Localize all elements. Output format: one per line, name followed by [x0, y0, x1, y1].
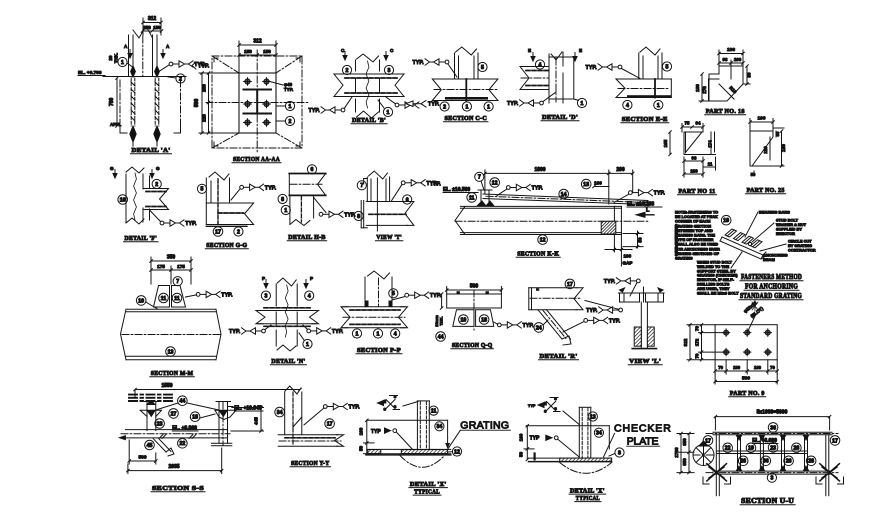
section U-U mid rail [717, 451, 807, 454]
svg-text:156: 156 [244, 49, 252, 54]
part 11 title [678, 188, 717, 195]
svg-text:75: 75 [685, 121, 690, 126]
svg-text:50: 50 [747, 72, 752, 77]
svg-text:CHECKER: CHECKER [614, 423, 672, 435]
section AA-AA title [232, 156, 281, 163]
svg-text:DETAIL 'N': DETAIL 'N' [271, 358, 305, 365]
svg-text:50: 50 [359, 446, 364, 452]
detail F callout 2 [152, 179, 161, 188]
detail X2 weld leader to post [563, 411, 579, 425]
section K-K main beam [455, 206, 648, 246]
svg-text:120: 120 [763, 146, 768, 154]
svg-text:50: 50 [518, 452, 523, 458]
detail R callout 17 [565, 279, 575, 289]
svg-text:TYP.: TYP. [507, 101, 519, 107]
section K-K callout 7 [475, 172, 484, 190]
svg-text:156: 156 [263, 49, 271, 54]
checker plate text [604, 423, 673, 458]
svg-text:50: 50 [751, 172, 756, 177]
svg-text:5: 5 [392, 291, 395, 297]
svg-text:312: 312 [683, 338, 688, 346]
svg-text:100: 100 [757, 116, 765, 122]
section S-S EL 9.900 [172, 426, 198, 432]
detail X2 callout 8 [609, 448, 624, 457]
detail HB top beam [289, 174, 325, 196]
view L column [641, 302, 647, 348]
svg-text:TYP.: TYP. [532, 186, 544, 192]
svg-text:TYP.: TYP. [609, 318, 621, 324]
section E-E beam [616, 79, 671, 98]
svg-text:200: 200 [616, 167, 625, 173]
part 18 dims top [718, 47, 745, 79]
detail A section markers AA [124, 44, 170, 58]
detail X1 weld symbols [378, 395, 400, 412]
section S-S callout 22 [178, 439, 188, 449]
svg-text:19: 19 [748, 446, 754, 452]
svg-text:7: 7 [360, 183, 363, 189]
section M-M typ leader [186, 291, 234, 298]
section K-K callout 14 [559, 189, 569, 199]
svg-text:17: 17 [567, 282, 573, 288]
view L title [628, 358, 662, 365]
svg-text:850: 850 [682, 458, 687, 466]
svg-text:4: 4 [626, 103, 629, 109]
svg-text:96: 96 [723, 57, 728, 62]
svg-text:100: 100 [359, 427, 364, 435]
section U-U posts [716, 435, 829, 471]
section AA-AA dim 500 [194, 72, 239, 135]
detail X1 grating strip [367, 449, 451, 455]
section K-K EL 10.500 [430, 182, 478, 194]
detail X1 weld leader to post [403, 402, 418, 407]
section K-K callout 12 [490, 178, 500, 188]
part 25 title [746, 187, 786, 194]
detail F beam right [143, 189, 169, 210]
detail B typ leader right [386, 97, 419, 108]
part 25 plate outline [750, 131, 773, 166]
section S-S callout 18 [190, 412, 215, 422]
svg-text:1: 1 [356, 331, 359, 337]
section K-K callout 13 [581, 179, 591, 189]
svg-text:SECTION Q-Q: SECTION Q-Q [452, 342, 493, 349]
section C-C column top [455, 47, 479, 79]
svg-text:1: 1 [581, 101, 584, 107]
svg-text:17: 17 [327, 421, 333, 427]
svg-text:175: 175 [177, 264, 185, 269]
part 11 dims top [681, 121, 705, 133]
detail HB callout 8 [278, 194, 287, 203]
svg-text:8: 8 [618, 450, 621, 456]
svg-text:TYP.: TYP. [332, 329, 344, 335]
section K-K left stub [477, 190, 494, 206]
svg-text:SECTION Y-Y: SECTION Y-Y [291, 460, 330, 467]
view T typ leader [392, 180, 439, 201]
svg-text:ERECTOR: ERECTOR [776, 231, 795, 236]
svg-text:20: 20 [108, 55, 113, 60]
svg-text:1: 1 [465, 104, 468, 110]
section U-U corner gusset left [707, 464, 727, 481]
detail R typ leader upper [585, 301, 622, 315]
section K-K title [516, 251, 560, 258]
grating note stud bolt [752, 218, 807, 243]
view T title [375, 234, 403, 241]
svg-text:TYP.: TYP. [413, 60, 425, 66]
svg-text:5: 5 [481, 65, 484, 71]
detail A callout 1 [118, 57, 134, 68]
section K-K sloped member [483, 194, 648, 206]
section S-S dim 2035 [127, 448, 223, 474]
section M-M callout 11 left [159, 293, 169, 303]
part 9 dims left [683, 323, 726, 361]
svg-text:SECTION S-S: SECTION S-S [152, 485, 204, 492]
svg-text:445: 445 [254, 417, 259, 425]
view T end plate [361, 201, 367, 228]
section M-M title [150, 370, 195, 377]
detail B callouts [342, 65, 393, 116]
svg-text:TYP.: TYP. [265, 185, 277, 191]
section U-U pipe column section [693, 441, 714, 466]
detail R brace [538, 310, 571, 345]
detail B vertical member [356, 54, 380, 118]
section Q-Q title [451, 342, 494, 349]
svg-text:180: 180 [695, 84, 700, 92]
svg-text:1: 1 [657, 103, 660, 109]
section Y-Y callout 17 [325, 419, 335, 429]
svg-text:GAP: GAP [623, 261, 633, 266]
svg-text:TYPICAL: TYPICAL [576, 495, 600, 502]
svg-text:70: 70 [695, 326, 700, 331]
detail HB column below [290, 195, 314, 225]
fasteners method title [739, 273, 803, 300]
part 11 dims [663, 131, 716, 177]
section S-S title [151, 485, 205, 492]
detail N vertical member [276, 278, 297, 351]
svg-text:TYP.: TYP. [185, 221, 197, 227]
svg-text:DETAIL 'R': DETAIL 'R' [540, 353, 578, 360]
svg-text:2035: 2035 [168, 464, 179, 470]
section G-G column top [206, 172, 229, 225]
svg-text:220: 220 [202, 114, 207, 122]
detail N section markers P [262, 276, 313, 288]
svg-text:175: 175 [157, 264, 165, 269]
section C-C title [444, 115, 489, 122]
svg-text:312: 312 [253, 39, 262, 45]
detail X1 dashed arc [400, 456, 445, 468]
svg-text:BEARING BARS: BEARING BARS [759, 210, 790, 215]
svg-text:2: 2 [346, 68, 349, 74]
part 18 plate outline [709, 66, 743, 101]
section Q-Q callout 18 [479, 315, 489, 325]
section C-C callout 5 [478, 62, 487, 71]
detail R beam [529, 288, 583, 310]
view L typ leader top [604, 278, 640, 296]
part 9 bolts [722, 329, 771, 356]
svg-text:SECTION E-E: SECTION E-E [622, 116, 668, 123]
part 9 title [729, 390, 766, 397]
section M-M saddle right [172, 286, 186, 308]
svg-text:169: 169 [690, 168, 698, 173]
section K-K dim 1800 200 [484, 167, 634, 204]
svg-text:23: 23 [770, 445, 776, 451]
svg-text:TYP.: TYP. [586, 65, 598, 71]
detail A 20 THK [108, 53, 119, 63]
svg-text:70: 70 [695, 353, 700, 358]
svg-text:11: 11 [469, 195, 475, 201]
svg-text:2: 2 [237, 229, 240, 235]
detail A AFFL [110, 122, 122, 127]
svg-text:FOR ANCHORING: FOR ANCHORING [745, 283, 798, 291]
svg-text:312: 312 [148, 16, 157, 22]
detail A base line [103, 76, 186, 78]
section S-S dim 1550 [134, 383, 302, 398]
svg-text:26: 26 [786, 459, 792, 465]
section S-S beam [119, 430, 230, 440]
section P-P title [356, 347, 402, 354]
section M-M dims [150, 255, 193, 285]
svg-text:7: 7 [478, 175, 481, 181]
detail N typ leader right [303, 325, 344, 335]
svg-text:7: 7 [176, 279, 179, 285]
section E-E column top [639, 47, 662, 79]
detail X1 callout 34 [435, 422, 444, 431]
svg-text:13: 13 [590, 414, 596, 420]
section G-G beam right [206, 203, 253, 226]
section C-C callouts bottom [440, 102, 493, 111]
svg-text:13: 13 [168, 349, 174, 355]
svg-text:DETAIL 'B': DETAIL 'B' [352, 117, 386, 124]
svg-text:1: 1 [289, 104, 292, 110]
svg-text:TYP.: TYP. [604, 279, 616, 285]
svg-text:12: 12 [492, 180, 498, 186]
section U-U EL 8.600 [752, 438, 778, 444]
detail F title [124, 235, 159, 242]
section S-S dim 569 [128, 440, 157, 464]
detail D title [541, 114, 579, 121]
detail D typ leader [507, 92, 556, 107]
section P-P beam [341, 307, 408, 328]
part 25 dim 100 [749, 116, 775, 132]
svg-text:SECTION P-P: SECTION P-P [357, 347, 401, 354]
grating callout 10 [721, 215, 731, 225]
section G-G title [205, 242, 248, 249]
svg-text:BEAM: BEAM [763, 257, 775, 262]
svg-text:2: 2 [155, 182, 158, 188]
detail A callout 2 [168, 74, 185, 83]
svg-text:TYP.: TYP. [430, 293, 442, 299]
svg-text:8: 8 [281, 197, 284, 203]
detail R callout 24 [534, 320, 548, 332]
detail A typ leader [158, 61, 206, 72]
svg-text:100: 100 [734, 57, 742, 62]
grating iso sketch anchoring beam [720, 229, 766, 259]
svg-text:TYP.: TYP. [309, 108, 321, 114]
svg-text:SHALL BE M6x9 BOLT: SHALL BE M6x9 BOLT [697, 290, 739, 295]
svg-text:8: 8 [357, 214, 360, 220]
detail A anchor bolts [130, 66, 160, 146]
section K-K typ leader right [614, 189, 665, 202]
svg-text:4: 4 [394, 331, 397, 337]
svg-text:34: 34 [437, 424, 443, 430]
detail A title [131, 147, 172, 154]
svg-text:TYP.: TYP. [284, 87, 293, 92]
section M-M callout 7 [173, 277, 182, 286]
svg-text:3: 3 [264, 293, 267, 299]
section Q-Q dim 500 [445, 284, 502, 295]
svg-text:TYP.: TYP. [430, 182, 441, 188]
section Y-Y typ leader [304, 403, 360, 425]
svg-text:STANDARD GRATING: STANDARD GRATING [740, 292, 802, 300]
svg-text:5x1000=5000: 5x1000=5000 [757, 410, 788, 416]
section P-P callout 5 [389, 289, 398, 298]
section S-S callout 23 [155, 419, 165, 429]
section U-U columns below [716, 474, 829, 496]
section S-S dim 445 [231, 406, 264, 432]
section K-K gap dim [605, 247, 632, 266]
svg-text:18: 18 [481, 317, 487, 323]
svg-text:17: 17 [832, 438, 838, 444]
svg-text:150: 150 [781, 144, 786, 152]
svg-text:11: 11 [431, 408, 437, 414]
section Q-Q callout 44 [436, 332, 446, 342]
svg-text:VIEW 'T': VIEW 'T' [376, 234, 402, 241]
section K-K hatch block [601, 221, 616, 234]
section Q-Q callout 19 [459, 315, 469, 325]
grating note bottom left [697, 252, 742, 295]
svg-text:TYP.: TYP. [221, 292, 233, 298]
svg-text:44: 44 [180, 399, 186, 405]
section Y-Y title [290, 460, 331, 467]
detail D column [549, 52, 574, 103]
svg-text:500: 500 [742, 376, 750, 382]
svg-text:6: 6 [311, 167, 314, 173]
svg-text:G: G [156, 166, 160, 171]
svg-text:18: 18 [192, 415, 198, 421]
section AA-AA bolts [244, 78, 271, 127]
section K-K typ leader mid [497, 184, 543, 195]
svg-text:2: 2 [289, 119, 292, 125]
svg-text:12: 12 [540, 237, 546, 243]
detail HB callout 1 [281, 205, 290, 214]
svg-text:5: 5 [666, 64, 669, 70]
svg-text:174: 174 [708, 140, 713, 148]
detail X2 base plate [529, 452, 612, 461]
detail F section markers G [110, 166, 160, 178]
svg-text:4: 4 [308, 293, 311, 299]
svg-text:P: P [262, 276, 265, 281]
svg-text:12: 12 [454, 449, 460, 455]
view T beam [366, 202, 414, 226]
section C-C typ leader top [413, 59, 457, 77]
detail X2 typ leader [530, 435, 579, 457]
svg-text:TYP.: TYP. [654, 191, 666, 197]
detail A pedestal outline [120, 80, 181, 133]
svg-text:PLATE: PLATE [627, 435, 660, 447]
section AA-AA dim 312 [238, 39, 278, 74]
svg-text:TYP.: TYP. [586, 308, 598, 314]
section S-S callout 44 leaders [156, 396, 219, 410]
section U-U title [740, 498, 795, 505]
section C-C typ arrow bottom left [406, 101, 440, 108]
svg-text:TYP.: TYP. [428, 102, 440, 108]
svg-text:850: 850 [682, 438, 687, 446]
section E-E title [621, 116, 669, 123]
svg-text:4: 4 [539, 62, 542, 68]
svg-text:196: 196 [727, 47, 735, 53]
svg-text:36: 36 [763, 459, 769, 465]
svg-text:VIEW 'L': VIEW 'L' [629, 358, 661, 365]
detail X2 weld symbols [528, 397, 560, 414]
detail B typ leader left [309, 97, 352, 114]
part 9 slot note [743, 300, 765, 333]
detail F vertical member [126, 167, 150, 224]
svg-text:185: 185 [663, 139, 668, 147]
section Y-Y callout 34 [275, 407, 285, 417]
detail N title [270, 358, 306, 365]
section U-U bottom arrows [736, 435, 809, 471]
svg-text:1550: 1550 [161, 383, 172, 389]
svg-text:26: 26 [808, 459, 814, 465]
grating note text left [675, 210, 720, 261]
svg-text:PART NO. 9: PART NO. 9 [730, 390, 765, 397]
grating note anchoring beam [763, 253, 788, 263]
view L hatched base [634, 327, 654, 346]
svg-text:13: 13 [583, 182, 589, 188]
detail N beam [256, 308, 319, 327]
detail D callout 4 [535, 60, 544, 69]
svg-text:500: 500 [470, 284, 479, 290]
svg-text:11: 11 [161, 296, 167, 302]
svg-text:6: 6 [406, 197, 409, 203]
detail D callout 1 [574, 98, 587, 107]
section S-S top rails dashdot [129, 395, 172, 401]
svg-text:156: 156 [153, 25, 161, 30]
svg-text:1: 1 [487, 104, 490, 110]
svg-text:P: P [310, 276, 313, 281]
svg-text:27: 27 [171, 411, 177, 417]
part 25 dims right [751, 128, 786, 177]
section G-G typ leader [231, 184, 277, 200]
svg-text:172: 172 [695, 338, 700, 346]
section E-E callout 5 [662, 62, 671, 71]
svg-text:DETAIL 'X': DETAIL 'X' [570, 487, 605, 494]
svg-text:THK.: THK. [439, 316, 444, 325]
detail B beam flanges [334, 74, 404, 97]
section P-P column [365, 271, 392, 307]
section P-P typ leader [392, 292, 442, 300]
svg-text:1800: 1800 [534, 167, 545, 173]
section Y-Y base [278, 435, 343, 447]
detail X1 typ leader [371, 428, 413, 450]
section Q-Q trapezoids [453, 310, 494, 327]
svg-text:180: 180 [733, 365, 741, 370]
svg-text:AFFL: AFFL [110, 122, 122, 127]
detail N typ leader left [229, 325, 271, 335]
svg-text:TYP.: TYP. [198, 64, 210, 70]
section S-S callout 45 [145, 440, 155, 450]
svg-text:TYP: TYP [528, 404, 536, 408]
svg-text:10: 10 [138, 298, 144, 304]
detail R typ leader lower [563, 317, 621, 332]
svg-text:100: 100 [518, 433, 523, 441]
section AA-AA typ arrow [192, 62, 210, 70]
svg-text:TYP.: TYP. [349, 405, 361, 411]
svg-text:DETAIL 'F': DETAIL 'F' [125, 235, 158, 242]
section AA-AA column I shape [244, 90, 272, 114]
svg-text:34: 34 [277, 410, 283, 416]
section AA-AA base plate [239, 73, 276, 133]
detail HB typ leader [319, 211, 356, 218]
svg-text:22: 22 [180, 441, 186, 447]
